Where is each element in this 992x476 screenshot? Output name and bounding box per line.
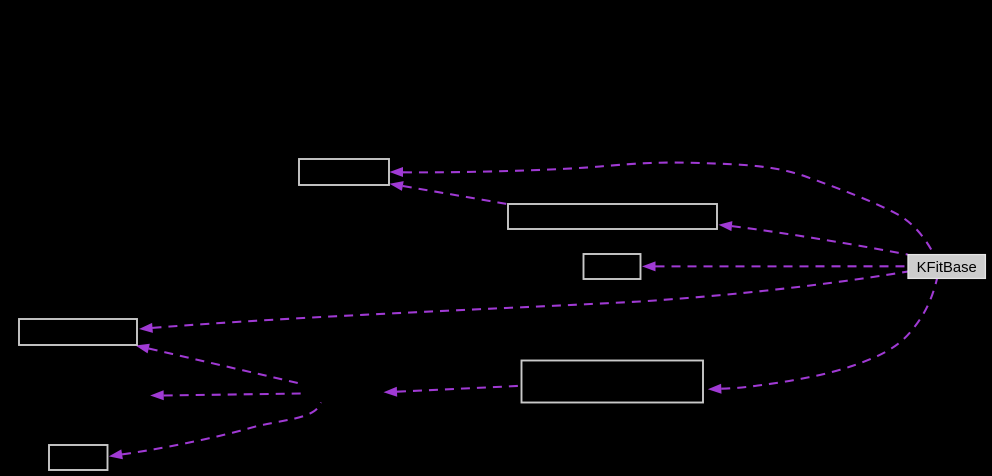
- class node N5 (label hidden, two lines): [522, 361, 704, 403]
- usage edge KFitBase to N2: [719, 221, 909, 255]
- usage edge KFitBase to N5 (bottom arc): [708, 279, 937, 394]
- usage edge hiddenA to N4: [136, 344, 303, 384]
- class node N4 (label hidden): [19, 319, 137, 345]
- usage edge KFitBase to N4: [139, 272, 908, 333]
- usage edge KFitBase to N3: [642, 261, 908, 271]
- class node KFitBase (current class, grey fill): [908, 255, 985, 279]
- class node N1 (label hidden): [299, 159, 389, 185]
- usage edge N5 to hiddenA: [384, 386, 520, 397]
- class node N2 (label hidden): [508, 204, 717, 229]
- usage edge KFitBase to N1 (top arc): [390, 163, 934, 253]
- usage edge hiddenA to N6: [109, 403, 321, 460]
- class node N3 (label hidden): [584, 254, 641, 279]
- usage edge hiddenA to hiddenB: [150, 390, 301, 400]
- svg-text:KFitBase: KFitBase: [917, 260, 977, 276]
- usage edge N2 to N1: [390, 181, 508, 204]
- class node N6 (label hidden): [49, 445, 108, 470]
